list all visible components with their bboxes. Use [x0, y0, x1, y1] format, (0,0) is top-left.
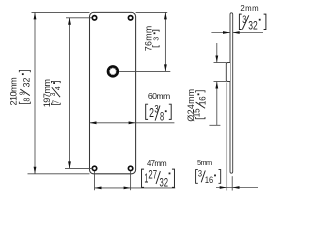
svg-text:32: 32 [159, 177, 168, 190]
svg-text:16: 16 [205, 175, 214, 185]
dimension 47mm bottom hole spacing [95, 159, 176, 190]
svg-text:3: 3 [198, 169, 203, 179]
dimension 5mm overall depth [197, 83, 258, 191]
svg-text:3: 3 [242, 14, 246, 26]
svg-text:32: 32 [21, 78, 31, 88]
svg-text:32: 32 [248, 20, 258, 33]
dimension 76mm plate top to spindle centre [119, 12, 170, 71]
dimension 2mm plate thickness [211, 4, 263, 34]
label [7 3/4 inch] [50, 81, 62, 104]
svg-text:8: 8 [22, 98, 32, 102]
svg-text:15: 15 [191, 108, 202, 117]
side view plate profile [230, 13, 233, 173]
svg-text:7: 7 [51, 100, 60, 104]
svg-text:47mm: 47mm [147, 159, 167, 168]
label [3/32 inch] [239, 14, 266, 33]
svg-text:27: 27 [148, 169, 157, 182]
svg-text:2: 2 [149, 106, 154, 120]
label [3/16 inch] [196, 169, 221, 185]
svg-text:8: 8 [160, 111, 165, 124]
svg-text:4: 4 [55, 86, 62, 90]
svg-text:210mm: 210mm [8, 77, 18, 106]
svg-text:3: 3 [154, 103, 158, 116]
dimension 210mm overall height [8, 12, 89, 173]
label [1 27/32 inch] [142, 169, 175, 190]
screw hole top-right [128, 16, 132, 20]
label [8 9/32 inch] [19, 70, 32, 103]
plate front view outline [90, 12, 136, 173]
svg-text:5mm: 5mm [197, 158, 212, 167]
label [15/16 inch] [191, 91, 207, 119]
label [2 3/8 inch] [146, 103, 172, 124]
svg-text:2mm: 2mm [240, 4, 258, 13]
side view spindle hub boss [226, 63, 230, 82]
screw hole top-left [92, 16, 96, 20]
dimension 197mm hole centres [42, 18, 93, 169]
screw hole bottom-right [128, 166, 132, 170]
svg-text:16: 16 [197, 96, 208, 105]
svg-text:9: 9 [19, 91, 26, 95]
screw hole bottom-left [92, 166, 96, 170]
svg-text:3: 3 [151, 37, 160, 41]
label [3 inch] [151, 30, 160, 47]
dimension Ø24mm spindle hub [186, 43, 226, 125]
centre spindle hole [108, 66, 118, 76]
svg-text:60mm: 60mm [148, 91, 170, 101]
dimension 60mm plate width [90, 91, 175, 124]
